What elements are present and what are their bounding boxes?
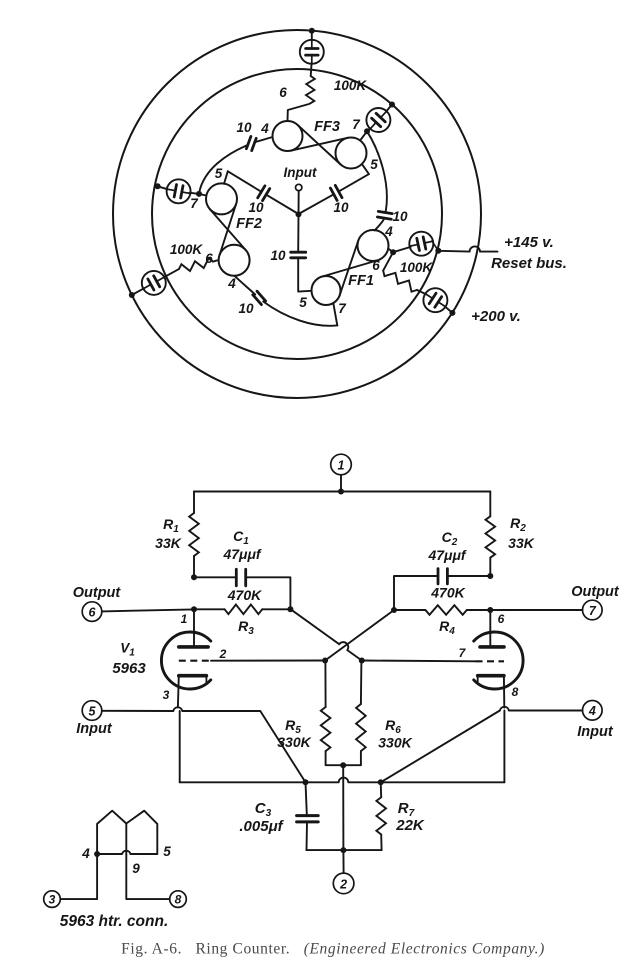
- capacitor 10 coupling FF1 pin4: [378, 211, 392, 213]
- svg-text:7: 7: [190, 196, 199, 211]
- svg-text:Input: Input: [76, 721, 113, 737]
- heater filament right section V1: [126, 811, 157, 854]
- feedthrough capacitor FF1 reset: [409, 232, 433, 256]
- svg-text:9: 9: [132, 861, 140, 876]
- junction bus R7: [378, 779, 384, 785]
- svg-text:6: 6: [279, 85, 287, 100]
- wire FF3 pin 5 stub: [362, 164, 369, 174]
- wire bus to R2: [489, 492, 491, 517]
- wire terminal 4 with cathode hump to bus: [381, 707, 583, 782]
- svg-text:10: 10: [248, 200, 264, 215]
- capacitor 10 input FF2: [263, 189, 270, 201]
- wire FF2 pin 5 stub: [224, 171, 228, 184]
- svg-text:1: 1: [181, 612, 188, 626]
- wire input junction toward FF3 pin5: [299, 194, 334, 214]
- tube V1 right triode envelope: [474, 632, 523, 689]
- wire +145v reset bus lead with hop over outer ring: [438, 246, 497, 251]
- terminal 4 input: [583, 701, 603, 721]
- junction FF1 pin 6: [390, 249, 396, 255]
- wire cap to FF2 pin 4: [235, 276, 255, 294]
- svg-text:5: 5: [299, 295, 307, 310]
- junction on outer ring FF3: [309, 28, 315, 34]
- svg-text:V1: V1: [120, 641, 135, 659]
- wire outer ring bus (+200v): [113, 30, 481, 398]
- wire junction to feedthrough FF1 reset: [393, 247, 411, 252]
- svg-text:3: 3: [163, 688, 170, 702]
- capacitor 10 coupling FF2 pin4: [257, 291, 266, 301]
- svg-text:5: 5: [215, 166, 223, 181]
- junction bus C3: [303, 779, 309, 785]
- svg-text:7: 7: [459, 646, 467, 660]
- resistor R3: [225, 605, 263, 615]
- wire junction to C2: [447, 575, 490, 577]
- svg-text:2: 2: [219, 647, 227, 661]
- svg-text:FF1: FF1: [348, 273, 374, 289]
- wire C2 corner down to R4 junction: [394, 576, 438, 610]
- wire heater pin 4 to terminal 3: [60, 854, 97, 899]
- plate bar V1 left: [179, 645, 208, 649]
- wire R1 to plate junction: [193, 556, 195, 577]
- feedthrough capacitor FF2 reset: [167, 179, 191, 203]
- svg-text:Output: Output: [73, 585, 122, 601]
- wire to R4: [394, 609, 425, 611]
- wire FF2 pin 6 stub: [213, 260, 219, 262]
- wire feedthrough to outer ring FF2: [132, 288, 144, 295]
- svg-text:Input: Input: [284, 165, 317, 180]
- svg-text:2: 2: [339, 877, 347, 891]
- svg-text:330K: 330K: [277, 734, 311, 750]
- junction FF3 pin 7: [364, 128, 370, 134]
- junction top bus: [338, 489, 344, 495]
- svg-text:470K: 470K: [430, 585, 465, 601]
- junction R3 left output node: [191, 606, 197, 612]
- junction R1 C1: [191, 574, 197, 580]
- svg-text:5: 5: [370, 157, 378, 172]
- wire inner ring bus (reset bus +145v): [152, 69, 442, 359]
- capacitor C2: [437, 569, 440, 584]
- junction on inner ring FF2: [155, 183, 161, 189]
- wire feedthrough to inner ring FF2: [158, 186, 168, 189]
- grid dashed V1 left: [179, 660, 211, 662]
- wire rail to terminal 2: [342, 850, 344, 873]
- svg-text:10: 10: [392, 209, 408, 224]
- wire R5 R6 common bracket: [326, 751, 361, 765]
- svg-text:R2: R2: [510, 515, 526, 534]
- svg-text:47μμf: 47μμf: [427, 547, 466, 563]
- terminal 8 heater: [170, 891, 187, 908]
- resistor R5: [321, 707, 331, 751]
- capacitor 10 input FF3: [330, 188, 337, 200]
- svg-text:FF2: FF2: [236, 216, 262, 232]
- resistor R6: [356, 704, 366, 751]
- svg-text:10: 10: [238, 301, 254, 316]
- terminal input open circle: [296, 184, 302, 190]
- svg-text:7: 7: [352, 117, 361, 132]
- plate bar right triode: [480, 645, 504, 649]
- feedthrough capacitor FF2 plate supply: [142, 271, 166, 295]
- svg-text:4: 4: [260, 121, 269, 136]
- junction on outer ring +200v tap: [449, 310, 455, 316]
- svg-text:R3: R3: [238, 618, 254, 637]
- resistor 100K FF1 plate: [383, 271, 417, 292]
- svg-text:33K: 33K: [155, 535, 182, 551]
- wire arc coupling cap to FF2 pin7 junction: [199, 146, 246, 193]
- svg-text:10: 10: [270, 248, 286, 263]
- tube V1 left triode envelope: [161, 632, 210, 689]
- flip-flop FF1: [358, 230, 389, 261]
- terminal 6 output: [82, 602, 102, 622]
- flip-flop FF3: [273, 121, 303, 151]
- feedthrough capacitor FF3 plate supply: [300, 40, 324, 64]
- wire to R3: [194, 608, 225, 610]
- wire heater pin 9 to terminal 8: [126, 851, 169, 899]
- svg-text:R6: R6: [385, 717, 401, 736]
- svg-text:47μμf: 47μμf: [222, 546, 261, 562]
- wire feedthrough to inner ring junction FF1: [432, 241, 438, 251]
- wire junction to C1: [194, 576, 236, 578]
- wire bus to R7: [380, 782, 383, 797]
- wire right grid lead: [362, 660, 476, 663]
- junction FF2 pin 7: [196, 191, 202, 197]
- wire right cathode hump to ground bus: [503, 711, 505, 783]
- svg-text:Reset bus.: Reset bus.: [491, 255, 567, 272]
- resistor R2: [486, 516, 496, 557]
- wire arc FF3 junction to cap near FF1 pin4: [367, 131, 387, 211]
- wire FF3 pin 4 to coupling cap: [257, 137, 273, 142]
- svg-text:10: 10: [236, 120, 252, 135]
- svg-text:6: 6: [372, 258, 380, 273]
- svg-text:4: 4: [227, 276, 236, 291]
- resistor R1: [189, 513, 199, 556]
- wire junction to resistor corner FF1: [383, 252, 393, 270]
- terminal 7 output: [583, 600, 603, 620]
- wire FF1 pin 7 stub to point: [333, 303, 337, 325]
- wire grid lead left triode: [211, 660, 325, 662]
- svg-text:C3: C3: [255, 800, 272, 819]
- resistor R7: [376, 797, 386, 834]
- wire junction to feedthrough FF3 pin7: [367, 128, 371, 131]
- feedthrough capacitor FF3 reset: [366, 108, 390, 132]
- junction R5 R6 common: [340, 762, 346, 768]
- svg-text:33K: 33K: [508, 535, 535, 551]
- terminal 5 input: [82, 701, 102, 721]
- heater filament left section V1: [97, 811, 126, 854]
- junction reset bus tap on inner ring: [435, 248, 441, 254]
- svg-text:5963 htr. conn.: 5963 htr. conn.: [60, 913, 169, 930]
- cathode bar V1 left: [179, 674, 207, 678]
- capacitor 10 input FF1: [291, 251, 306, 254]
- resistor 100K FF2 plate: [179, 258, 213, 271]
- wire plate lead right triode: [489, 610, 491, 645]
- feedthrough capacitor FF1 plate supply: [423, 288, 447, 312]
- svg-text:470K: 470K: [227, 587, 262, 603]
- svg-text:+200 v.: +200 v.: [471, 308, 521, 325]
- svg-text:100K: 100K: [170, 242, 204, 257]
- wire top supply bus: [194, 491, 490, 493]
- svg-text:8: 8: [512, 685, 519, 699]
- wire C3 to lower rail: [306, 822, 309, 850]
- junction lower rail: [340, 847, 346, 853]
- junction right grid node: [359, 658, 365, 664]
- junction R4 left: [391, 607, 397, 613]
- terminal 3 heater: [44, 891, 61, 908]
- terminal 1: [331, 454, 352, 475]
- wire FF1 pin 5 corner: [298, 259, 311, 292]
- svg-text:8: 8: [175, 893, 182, 907]
- wire bottom cathode bus with hop over center wire: [180, 778, 505, 783]
- svg-text:Input: Input: [577, 724, 614, 740]
- wire FF3 pin 6 to resistor: [288, 104, 310, 121]
- wire FF1 pin 6 stub to junction: [388, 249, 393, 253]
- svg-text:R4: R4: [439, 618, 455, 637]
- wire junction to feedthrough FF2 reset: [189, 193, 199, 194]
- wire FF3 pin 7 stub: [360, 131, 367, 140]
- junction R4 right plate node: [487, 607, 493, 613]
- svg-text:5: 5: [163, 844, 171, 859]
- cathode bar right triode: [478, 674, 504, 678]
- junction on outer ring FF2: [129, 292, 135, 298]
- svg-text:C1: C1: [233, 528, 249, 547]
- junction R2 C2: [487, 573, 493, 579]
- svg-text:C2: C2: [442, 529, 458, 548]
- junction input node: [296, 211, 302, 217]
- svg-text:FF3: FF3: [314, 119, 340, 135]
- terminal 2: [333, 873, 354, 894]
- svg-text:.005μf: .005μf: [239, 818, 284, 835]
- wire resistor to feedthrough FF3: [310, 63, 313, 76]
- resistor R4: [425, 605, 466, 615]
- junction heater pin 4: [94, 851, 100, 857]
- wire cathode lead left triode: [177, 676, 180, 707]
- wire plate lead V1 left: [193, 609, 195, 645]
- grid dashed right triode: [476, 660, 505, 662]
- svg-text:100K: 100K: [400, 260, 434, 275]
- wire FF2 pin 7 stub: [199, 194, 206, 196]
- wire R7 to lower rail: [380, 835, 382, 851]
- wire resistor to feedthrough FF1: [417, 290, 426, 294]
- junction on inner ring FF3: [389, 102, 395, 108]
- wire cap to FF1 pin 4: [375, 220, 384, 231]
- wire input junction toward FF2 pin5: [266, 195, 298, 214]
- wire bus to R1: [193, 492, 195, 514]
- svg-text:R1: R1: [163, 516, 179, 535]
- wire cathode lead right triode: [503, 676, 505, 708]
- svg-text:5: 5: [89, 704, 97, 718]
- wire R2 to plate junction: [489, 558, 491, 576]
- capacitor C3: [297, 814, 319, 817]
- wire terminal 1 to top bus: [340, 475, 342, 492]
- svg-text:22K: 22K: [395, 817, 425, 834]
- svg-text:330K: 330K: [378, 735, 412, 751]
- wire cross coupling right grid: [325, 610, 394, 661]
- wire C1 to corner down to R3 junction: [246, 577, 291, 609]
- wire feedthrough to outer ring FF3: [311, 31, 313, 41]
- wire lower rail: [307, 849, 382, 851]
- svg-text:100K: 100K: [334, 78, 368, 93]
- wire cathode hump to ground bus left: [179, 711, 181, 782]
- svg-text:6: 6: [498, 612, 505, 626]
- wire plate node to terminal 7: [490, 609, 582, 611]
- flip-flop FF2: [206, 183, 237, 214]
- wire R4 to junction: [467, 609, 491, 611]
- svg-text:+145 v.: +145 v.: [504, 234, 554, 251]
- resistor 100K FF3 plate: [306, 76, 315, 104]
- wire left grid to R5: [324, 661, 326, 708]
- capacitor C1: [235, 569, 238, 586]
- svg-text:10: 10: [333, 200, 349, 215]
- svg-text:Output: Output: [571, 584, 620, 600]
- svg-text:5963: 5963: [112, 660, 146, 677]
- junction left grid node: [322, 658, 328, 664]
- svg-text:7: 7: [338, 301, 347, 316]
- svg-text:7: 7: [589, 604, 597, 618]
- wire heater bottom left with pin9 hump: [97, 851, 130, 854]
- capacitor 10 coupling FF3 pin4: [252, 138, 257, 150]
- svg-text:1: 1: [338, 459, 345, 473]
- wire input terminal to junction: [298, 191, 300, 214]
- svg-text:4: 4: [81, 846, 90, 861]
- wire right grid to R6: [360, 661, 363, 705]
- wire terminal 6 to plate node: [102, 609, 194, 611]
- wire cap to FF3 pin5 corner: [339, 174, 369, 191]
- wire resistor to feedthrough FF2: [163, 269, 179, 278]
- junction R3 C1 right: [287, 606, 293, 612]
- svg-text:3: 3: [49, 893, 56, 907]
- junction R3 to cross coupling: [292, 610, 362, 660]
- wire common to lower rail crossing bus with hop: [342, 765, 344, 850]
- svg-text:4: 4: [588, 704, 596, 718]
- wire R3 to junction: [262, 608, 290, 610]
- wire cap to FF2 pin5 corner: [228, 171, 261, 191]
- svg-text:6: 6: [89, 605, 97, 619]
- svg-text:Fig. A-6. Ring Counter. (E: Fig. A-6. Ring Counter. (Engineered Elec…: [121, 941, 545, 958]
- wire cap to input junction: [297, 215, 299, 251]
- wire arc FF1 pin7 to coupling cap FF2 pin4: [263, 302, 337, 326]
- wire feedthrough to outer ring FF1: [445, 306, 453, 313]
- wire terminal 5 with cathode hump: [102, 707, 306, 782]
- wire feedthrough to inner ring FF3: [386, 105, 392, 112]
- wire bus to C3: [306, 782, 307, 814]
